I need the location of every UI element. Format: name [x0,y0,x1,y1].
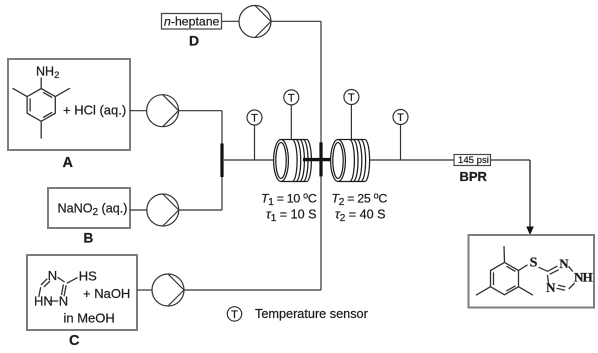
wire pump P2 to corner [179,209,222,211]
svg-text:NH: NH [574,270,593,285]
BPR box 145 psi [454,155,491,166]
svg-text:τ1 = 10 S: τ1 = 10 S [266,208,317,225]
reagent box A [8,59,130,150]
svg-text:S: S [530,255,538,270]
product box [469,235,595,308]
mixer cross M2 [303,142,339,176]
svg-text:T: T [397,112,404,124]
reactor R1 coil [274,140,312,182]
wire down to product box [529,160,531,227]
reagent box B [48,188,130,228]
reactor R2 coil [331,140,370,182]
temperature sensor T4 [393,110,408,161]
temperature sensor T3 above reactor R2 [344,90,359,140]
legend temperature sensor symbol [227,307,241,321]
svg-text:T: T [251,113,258,125]
wire pump P1 to corner [179,110,222,112]
mixer tee M1 [220,144,223,178]
wire tee M1 to reactor R1 [222,159,275,161]
product structure: mesityl ring [476,246,533,295]
wire BPR to corner [491,159,531,161]
svg-text:Temperature sensor: Temperature sensor [255,307,369,321]
structure: triazole-thiol [39,277,78,301]
temperature sensor T1 [247,110,262,160]
svg-text:C: C [69,333,80,348]
reagent box D (n-heptane) [162,14,222,30]
svg-text:B: B [84,230,94,245]
product structure: S-triazole [530,255,593,295]
svg-text:D: D [189,33,199,49]
wire box D to pump P4 [222,20,240,22]
svg-text:A: A [63,155,74,171]
wire reactor R2 to BPR [369,159,454,161]
pump P4 [239,6,271,38]
wire pump P3 to vertical line [184,289,321,291]
svg-text:HS: HS [79,269,97,284]
wire box C to pump P3 [137,289,152,291]
wire A down to tee M1 [221,111,223,210]
svg-text:BPR: BPR [460,169,488,184]
svg-text:N: N [546,280,556,295]
svg-text:T2 = 25 oC: T2 = 25 oC [332,191,388,209]
pump P3 [152,274,184,306]
structure: mesitylamine ring [13,78,70,139]
svg-text:N: N [48,268,57,283]
svg-text:T: T [231,309,238,321]
svg-text:+ NaOH: + NaOH [83,286,130,301]
svg-text:in MeOH: in MeOH [64,311,115,326]
reagent box C [27,255,137,330]
svg-text:HN: HN [34,294,53,309]
svg-text:T1 = 10 oC: T1 = 10 oC [261,191,317,209]
svg-text:T: T [348,92,355,104]
wire box A to pump P1 [130,110,147,112]
temperature sensor T2 above reactor R1 [284,90,299,140]
arrowhead [526,227,534,236]
pump P2 [147,194,179,226]
svg-text:T: T [288,92,295,104]
svg-text:n-heptane: n-heptane [164,15,220,29]
pump P1 [147,95,179,127]
wire vertical D/C line into cross mixer [320,21,322,290]
wire box B to pump P2 [130,209,147,211]
svg-text:N: N [559,256,569,271]
svg-text:+ HCl (aq.): + HCl (aq.) [63,103,126,118]
wire pump P4 to down-corner [271,20,321,22]
svg-text:τ2 = 40 S: τ2 = 40 S [335,208,386,225]
svg-text:N: N [59,294,68,309]
svg-text:145 psi: 145 psi [458,155,489,166]
